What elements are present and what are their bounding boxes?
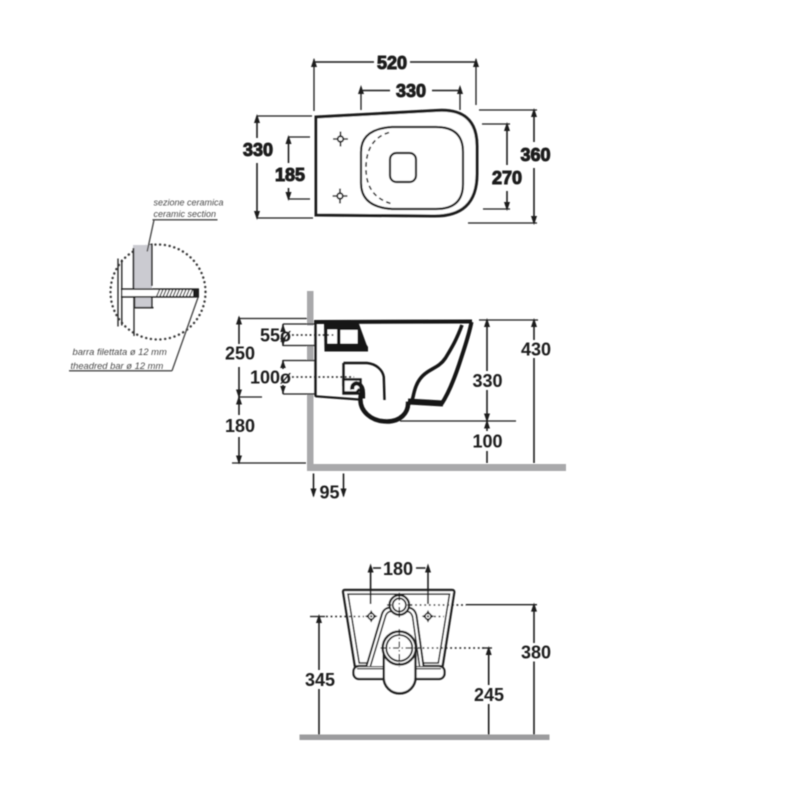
dimension 180 rear xyxy=(373,567,426,569)
detail wall double line xyxy=(118,259,122,327)
svg-text:theadred bar ø 12 mm: theadred bar ø 12 mm xyxy=(71,360,164,371)
rear outlet pipe xyxy=(385,645,415,685)
arrows left xyxy=(236,316,242,325)
svg-text:430: 430 xyxy=(521,340,551,360)
side profile bottom back edge xyxy=(316,396,360,399)
svg-text:270: 270 xyxy=(492,168,522,188)
rear shell outer xyxy=(343,590,454,667)
dimension 95 xyxy=(314,474,344,497)
svg-text:245: 245 xyxy=(474,685,504,705)
side profile right outer edge xyxy=(442,322,472,404)
plan outline (toilet top view) xyxy=(316,110,477,216)
svg-text:ceramic section: ceramic section xyxy=(154,209,217,219)
svg-text:330: 330 xyxy=(472,371,502,391)
side shelf and weir xyxy=(344,363,385,400)
wall xyxy=(307,291,314,471)
rear outlet ring 100 xyxy=(383,631,416,664)
detail threaded bar hatch xyxy=(157,289,193,296)
dimension 345 xyxy=(318,617,320,735)
dimension 180 side xyxy=(238,397,240,463)
plan seat inner rim xyxy=(361,127,463,209)
svg-text:345: 345 xyxy=(305,670,335,690)
svg-text:barra filettata ø 12 mm: barra filettata ø 12 mm xyxy=(73,346,167,357)
svg-text:250: 250 xyxy=(225,344,255,364)
dimension 520 xyxy=(314,61,476,63)
svg-text:330: 330 xyxy=(396,81,426,101)
55 pipe ref lines xyxy=(283,324,315,346)
floor rear view xyxy=(300,735,550,741)
side outlet box xyxy=(344,380,361,394)
plan fixing cross top xyxy=(333,132,348,147)
detail ceramic gray upper xyxy=(133,245,152,289)
svg-text:185: 185 xyxy=(275,165,305,185)
plan drain square xyxy=(390,153,416,182)
rear inlet ring 55 xyxy=(390,595,410,615)
svg-text:520: 520 xyxy=(377,53,407,73)
svg-text:100: 100 xyxy=(472,432,502,452)
svg-text:380: 380 xyxy=(521,643,551,663)
arrows 95 xyxy=(311,489,347,498)
side profile back edge xyxy=(314,321,316,397)
side profile bowl inner S-curve xyxy=(409,325,463,404)
svg-text:55ø: 55ø xyxy=(260,326,291,346)
svg-text:180: 180 xyxy=(225,416,255,436)
svg-text:180: 180 xyxy=(383,559,413,579)
side outlet box bottom lip xyxy=(344,389,360,393)
side profile underside band xyxy=(408,402,443,404)
dimension 100 side xyxy=(486,421,488,463)
detail ceramic back line xyxy=(133,289,135,336)
dashed crosshairs xyxy=(326,595,484,668)
side inner back wall xyxy=(342,363,344,386)
svg-text:95: 95 xyxy=(319,483,339,503)
dimension 185 xyxy=(288,137,290,199)
side spigot block xyxy=(324,323,368,352)
rear fixing hole right xyxy=(425,613,431,619)
detail ceramic gray lower xyxy=(134,297,152,308)
rear tent channel xyxy=(367,608,424,667)
dimension 430 xyxy=(533,320,535,463)
dimension 245 xyxy=(488,648,490,735)
side trap hook xyxy=(352,383,363,398)
floor side view xyxy=(307,464,566,471)
dimension 250 xyxy=(238,317,240,397)
detail plate (washer) xyxy=(123,289,200,297)
plan fixing cross bottom xyxy=(333,189,348,204)
dotted line 100 xyxy=(292,376,354,378)
leader to ceramic xyxy=(147,220,154,252)
plan dashed inner rim line xyxy=(366,133,391,204)
dimension 330 left xyxy=(256,116,258,218)
side profile trap U xyxy=(360,394,408,422)
detail bar end cap xyxy=(193,289,199,297)
dimension 380 xyxy=(533,605,535,735)
100 pipe ref lines xyxy=(283,361,315,395)
dimension 360 xyxy=(533,110,535,223)
leader to bar xyxy=(172,298,198,371)
dimension 330 side xyxy=(486,320,488,421)
svg-text:sezione ceramica: sezione ceramica xyxy=(154,198,224,208)
rear shell inner line xyxy=(348,594,450,663)
svg-text:360: 360 xyxy=(520,145,550,165)
dotted line 55 xyxy=(292,334,336,336)
dimension 270 xyxy=(506,124,508,209)
dimension 330 top xyxy=(361,90,460,92)
svg-text:100ø: 100ø xyxy=(250,368,291,388)
side profile top rim xyxy=(314,320,472,325)
ref line top xyxy=(239,318,307,320)
svg-text:330: 330 xyxy=(243,140,273,160)
arrows right xyxy=(531,318,537,327)
detail dotted circle xyxy=(111,245,206,340)
rear base strip xyxy=(354,666,445,679)
rear fixing hole left xyxy=(368,613,374,619)
